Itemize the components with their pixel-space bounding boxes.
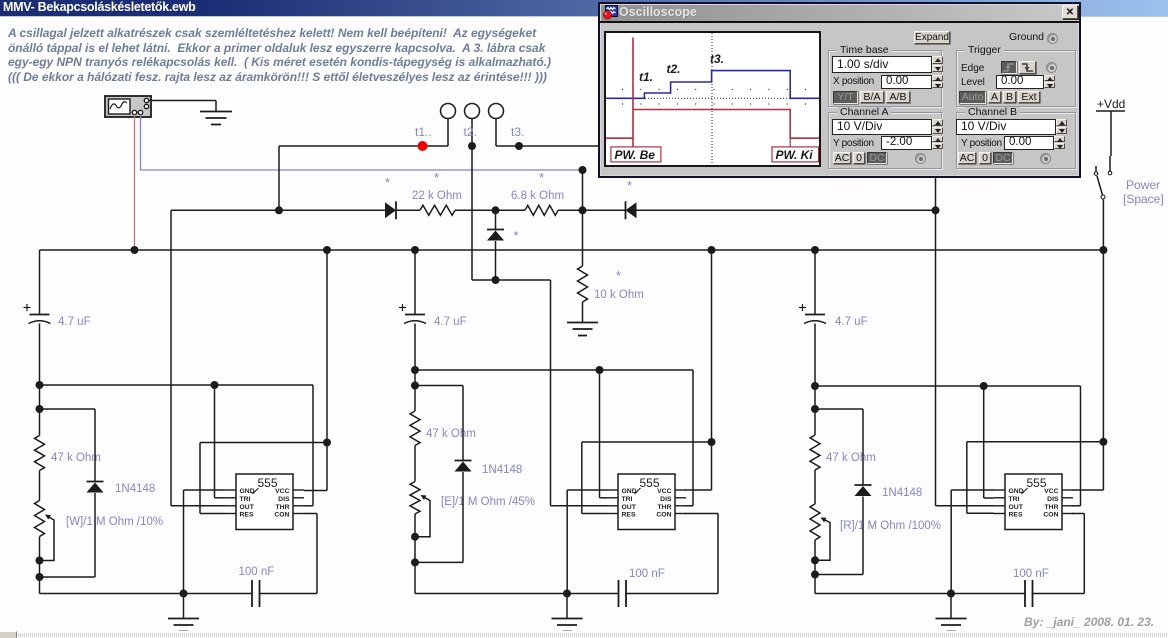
svg-text:RES: RES xyxy=(622,512,636,519)
svg-text:100 nF: 100 nF xyxy=(629,568,665,580)
svg-text:PW. Ki: PW. Ki xyxy=(776,148,814,162)
svg-text:t3.: t3. xyxy=(511,125,524,139)
svg-text:*: * xyxy=(514,228,519,243)
svg-text:[W]/1 M Ohm /10%: [W]/1 M Ohm /10% xyxy=(66,516,163,528)
svg-text:[Space]: [Space] xyxy=(1123,192,1164,206)
svg-text:4.7 uF: 4.7 uF xyxy=(835,316,868,328)
svg-text:1N4148: 1N4148 xyxy=(482,464,522,476)
svg-text:THR: THR xyxy=(1045,504,1059,511)
svg-text:*: * xyxy=(385,175,390,190)
svg-text:TRI: TRI xyxy=(1009,496,1020,503)
svg-text:t2.: t2. xyxy=(667,62,681,76)
svg-text:TRI: TRI xyxy=(240,496,251,503)
svg-text:DIS: DIS xyxy=(660,496,672,503)
svg-text:PW. Be: PW. Be xyxy=(615,148,656,162)
svg-text:THR: THR xyxy=(658,504,672,511)
svg-text:4.7 uF: 4.7 uF xyxy=(58,316,91,328)
svg-text:*: * xyxy=(616,268,621,283)
svg-text:CON: CON xyxy=(656,512,671,519)
svg-text:100 nF: 100 nF xyxy=(1013,568,1049,580)
svg-text:4.7 uF: 4.7 uF xyxy=(434,316,467,328)
svg-text:t1..: t1.. xyxy=(415,125,432,139)
svg-text:OUT: OUT xyxy=(622,504,637,511)
svg-text:*: * xyxy=(627,178,632,193)
svg-text:t3.: t3. xyxy=(710,52,724,66)
svg-text:10 k Ohm: 10 k Ohm xyxy=(594,289,644,301)
svg-text:47 k Ohm: 47 k Ohm xyxy=(426,428,476,440)
svg-text:t1.: t1. xyxy=(639,70,653,84)
svg-text:t2.: t2. xyxy=(464,125,477,139)
svg-text:*: * xyxy=(434,170,439,185)
svg-text:47 k Ohm: 47 k Ohm xyxy=(51,452,101,464)
svg-text:[E]/1 M Ohm /45%: [E]/1 M Ohm /45% xyxy=(441,496,535,508)
svg-text:47 k Ohm: 47 k Ohm xyxy=(826,452,876,464)
svg-text:GND: GND xyxy=(1009,488,1024,495)
svg-text:OUT: OUT xyxy=(1009,504,1024,511)
svg-text:CON: CON xyxy=(274,512,289,519)
svg-text:RES: RES xyxy=(240,512,254,519)
svg-text:VCC: VCC xyxy=(657,488,671,495)
svg-text:100 nF: 100 nF xyxy=(239,566,275,578)
svg-text:+Vdd: +Vdd xyxy=(1097,97,1125,111)
svg-text:RES: RES xyxy=(1009,512,1023,519)
svg-text:DIS: DIS xyxy=(278,496,290,503)
svg-text:6.8 k Ohm: 6.8 k Ohm xyxy=(511,190,564,202)
svg-text:*: * xyxy=(539,170,544,185)
svg-text:[R]/1 M Ohm /100%: [R]/1 M Ohm /100% xyxy=(840,520,941,532)
svg-text:22 k Ohm: 22 k Ohm xyxy=(412,190,462,202)
svg-text:TRI: TRI xyxy=(622,496,633,503)
svg-text:Power: Power xyxy=(1126,178,1160,192)
svg-text:CON: CON xyxy=(1043,512,1058,519)
svg-text:GND: GND xyxy=(622,488,637,495)
svg-text:GND: GND xyxy=(240,488,255,495)
svg-text:THR: THR xyxy=(276,504,290,511)
svg-text:1N4148: 1N4148 xyxy=(882,487,922,499)
svg-text:OUT: OUT xyxy=(240,504,255,511)
svg-text:VCC: VCC xyxy=(1044,488,1058,495)
svg-text:VCC: VCC xyxy=(275,488,289,495)
svg-text:DIS: DIS xyxy=(1047,496,1059,503)
svg-text:1N4148: 1N4148 xyxy=(115,483,155,495)
